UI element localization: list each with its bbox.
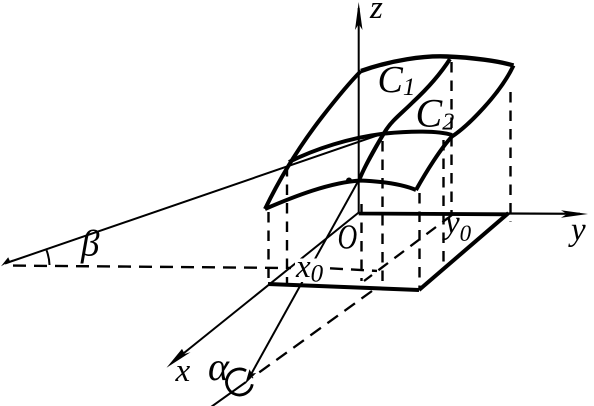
tangent T1 arrowhead (245, 369, 256, 384)
base front edge (268, 284, 419, 290)
svg-text:C1: C1 (378, 59, 416, 101)
x0 dashed line (right part) (330, 268, 377, 271)
svg-text:x0: x0 (295, 249, 324, 288)
surface left edge (265, 71, 361, 209)
alpha angle arc (227, 369, 253, 395)
x0 dashed line (left part) (13, 266, 291, 268)
curve C1 (360, 59, 450, 178)
y-axis (359, 210, 588, 217)
tangent line T2 (beta) (5, 134, 383, 264)
svg-text:y: y (568, 212, 586, 248)
x0 label backing (295, 259, 327, 283)
tangent line T1 (alpha, through M0) (249, 140, 381, 378)
surface front edge (265, 181, 416, 210)
curve C2 (289, 132, 452, 162)
svg-text:C2: C2 (416, 91, 455, 136)
base back edge (359, 213, 506, 216)
svg-text:α: α (208, 344, 230, 389)
alpha construction dashed line (252, 291, 372, 378)
x-axis (167, 213, 359, 368)
svg-text:O: O (338, 217, 358, 256)
z-axis (355, 2, 363, 213)
projection vertical V2 (286, 166, 288, 284)
projection vertical V6 below top-right corner (509, 92, 511, 222)
tangent T2 arrowhead (1, 257, 14, 266)
svg-text:x: x (175, 353, 191, 389)
projection vertical V1 below surface corner (267, 212, 269, 281)
projection vertical V5 (442, 140, 444, 268)
point M0 dot (346, 178, 352, 184)
surface top edge (361, 56, 514, 71)
projection vertical V7 (381, 141, 383, 288)
y0 dashed diagonal (364, 215, 452, 281)
svg-text:z: z (369, 0, 383, 26)
base right edge (419, 213, 509, 290)
beta angle arc (47, 250, 50, 265)
projection vertical V3 below origin (360, 204, 362, 281)
projection vertical V4 from C1 top (450, 62, 452, 214)
projection vertical V8 below right front corner (418, 193, 420, 288)
surface right edge (416, 66, 514, 191)
svg-text:β: β (80, 224, 100, 265)
alpha construction solid continuation (211, 382, 246, 406)
svg-text:y0: y0 (442, 205, 472, 246)
